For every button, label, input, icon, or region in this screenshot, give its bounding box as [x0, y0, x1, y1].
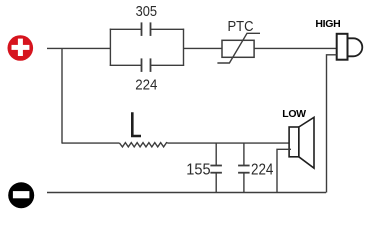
wire from PTC to tweeter: [254, 47, 337, 49]
svg-text:224: 224: [251, 161, 273, 178]
tweeter body: [337, 34, 348, 60]
capacitor C155 upper lead: [215, 143, 217, 165]
ground rail wire from - terminal: [47, 192, 326, 194]
capacitor C224a bottom branch wires: [110, 64, 142, 66]
svg-text:PTC: PTC: [228, 19, 254, 35]
capacitor C224b plates: [238, 165, 250, 167]
label L: [132, 112, 141, 136]
PTC thermistor body: [222, 40, 254, 57]
svg-text:LOW: LOW: [282, 108, 306, 120]
PTC diagonal stroke: [217, 33, 260, 63]
capacitor C305 top branch wires: [110, 28, 142, 30]
tweeter return wire: [327, 55, 337, 193]
capacitor C305 plates: [141, 22, 143, 36]
inductor L zigzag: [120, 143, 169, 147]
capacitor C155 lower lead: [215, 173, 217, 193]
wire from capacitor bank to PTC: [184, 47, 223, 49]
wire from + to capacitor bank: [47, 47, 110, 49]
capacitor bank left vertical: [109, 29, 111, 66]
capacitor bank right vertical: [183, 29, 185, 66]
negative terminal: [8, 182, 34, 208]
capacitor C224b lower lead: [243, 173, 245, 193]
wire from inductor to woofer: [168, 142, 291, 144]
positive terminal: [7, 35, 33, 61]
tweeter dome: [348, 38, 363, 56]
capacitor C224a plates: [141, 58, 143, 72]
node A: junction drop to low-pass rail: [61, 48, 63, 143]
woofer body: [289, 127, 299, 157]
woofer cone: [299, 117, 314, 168]
capacitor C224b upper lead: [243, 143, 245, 165]
svg-text:155: 155: [186, 161, 210, 178]
svg-text:224: 224: [135, 77, 157, 94]
woofer return wire: [277, 149, 291, 192]
svg-text:HIGH: HIGH: [315, 18, 340, 30]
capacitor C155 plates: [210, 165, 222, 167]
wire: low rail from junction to inductor: [62, 142, 120, 144]
svg-text:305: 305: [136, 3, 157, 20]
